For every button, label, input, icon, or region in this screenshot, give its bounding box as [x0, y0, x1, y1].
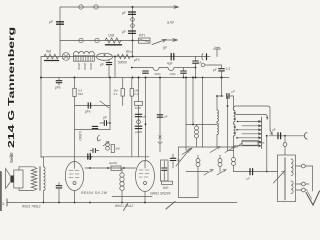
switch M2	[217, 170, 226, 176]
variable tap arrow	[176, 150, 190, 167]
wire V11	[178, 147, 180, 198]
junction dot	[132, 56, 134, 58]
resistor DrE box	[162, 181, 173, 184]
moving contact	[270, 130, 272, 135]
variable arrow	[103, 142, 109, 147]
connector ring3	[137, 120, 141, 124]
capacitor C20 cathode	[58, 183, 60, 186]
coil L6	[233, 96, 235, 110]
speaker driver	[14, 170, 23, 188]
capacitor C2	[129, 31, 136, 33]
wire V4	[74, 97, 76, 162]
switch K3	[225, 147, 235, 153]
capacitor C15	[157, 115, 163, 117]
resistor RTr box	[139, 38, 151, 43]
connector ring2	[131, 24, 135, 28]
underline bar	[45, 60, 59, 62]
resistor R1	[44, 54, 58, 59]
coil L3	[195, 126, 199, 130]
svg-text:µF3: µF3	[134, 58, 140, 62]
winding W1	[291, 159, 293, 176]
connector P1	[79, 5, 83, 9]
coil L8	[232, 158, 236, 162]
svg-text:µF: µF	[247, 177, 251, 181]
svg-text:DrE: DrE	[163, 186, 169, 190]
output transformer secondary	[43, 167, 45, 191]
svg-text:RFe: RFe	[126, 50, 132, 54]
contact w7	[234, 145, 262, 147]
wire H1 top bus	[60, 6, 178, 8]
contact w6	[242, 141, 261, 143]
contact w5	[237, 137, 261, 139]
capacitor C16	[162, 168, 167, 170]
wire H12	[186, 171, 208, 173]
capacitor C6	[195, 57, 197, 61]
svg-text:µF: µF	[164, 115, 168, 119]
edge artifact	[0, 172, 2, 211]
svg-text:2020: 2020	[77, 63, 81, 70]
capacitor C11	[88, 154, 91, 159]
choke L11	[120, 173, 124, 177]
svg-text:DrW: DrW	[135, 106, 141, 110]
contact w1	[238, 121, 262, 123]
speaker cone	[6, 169, 11, 189]
resistor R5 box	[131, 78, 133, 89]
wire drop 221.5	[221, 78, 223, 97]
svg-text:0,5MΩ: 0,5MΩ	[78, 131, 82, 141]
wire H11	[179, 197, 199, 199]
wire H5	[75, 105, 111, 107]
voltage selector arrow	[274, 171, 285, 183]
svg-text:RE604 SN 2W: RE604 SN 2W	[81, 191, 108, 195]
svg-text:µF: µF	[232, 90, 236, 94]
resistor R7 DrW box	[135, 102, 143, 106]
junction dot	[40, 77, 42, 79]
svg-text:2M: 2M	[116, 147, 121, 151]
wire V10	[202, 78, 204, 148]
capacitor C18	[278, 133, 281, 139]
wire V3 left drop	[40, 57, 42, 158]
resistor R9 box	[242, 141, 258, 146]
svg-text:µF: µF	[100, 63, 104, 67]
label L1 taps	[77, 63, 93, 70]
coil L4	[216, 96, 218, 110]
junction dot	[114, 56, 116, 58]
wire H2 second bus	[60, 40, 150, 42]
wire antenna output	[269, 135, 304, 137]
svg-text:WH21 7A•12: WH21 7A•12	[115, 204, 134, 208]
wire spk top	[19, 167, 34, 170]
terminal 3	[6, 199, 8, 206]
capacitor C5 stub	[58, 78, 60, 80]
ground G1	[88, 153, 93, 160]
svg-text:2020: 2020	[89, 63, 93, 70]
svg-text:Wd: Wd	[46, 50, 51, 54]
mains plug V	[306, 191, 320, 205]
wire H4 main bus	[41, 77, 229, 79]
wire hop line	[132, 68, 196, 71]
mains terminal T1	[296, 165, 302, 167]
wire filament line	[112, 196, 152, 198]
svg-text:50000: 50000	[118, 61, 127, 65]
capacitor C9	[107, 122, 110, 124]
capacitor C3	[108, 60, 110, 62]
capacitor C-ant	[57, 22, 64, 24]
junction dot	[132, 40, 134, 42]
loop wire A	[234, 106, 271, 130]
resistor R6 box	[111, 145, 114, 153]
wire H9 switch rail	[179, 143, 243, 147]
wire spk bottom	[19, 188, 34, 190]
capacitor C6b	[183, 68, 185, 71]
mains terminal T3	[296, 189, 302, 191]
wire H7	[41, 156, 149, 158]
core lines	[284, 158, 285, 201]
switch K2	[210, 147, 220, 153]
resistor R2	[117, 54, 130, 58]
capacitor C-h6	[92, 126, 98, 128]
arrow end a.W	[174, 6, 179, 9]
svg-text:2020: 2020	[83, 63, 87, 70]
coil L10	[218, 159, 222, 163]
wire H6 heater line	[75, 129, 111, 131]
wire H3 tuner bus	[41, 56, 210, 58]
wire shield vertical	[228, 96, 234, 150]
wire H8	[186, 124, 217, 126]
output tube V1	[65, 162, 83, 191]
resistor R-heat	[105, 38, 122, 43]
svg-text:µFe: µFe	[85, 110, 91, 114]
svg-text:MΩ: MΩ	[78, 92, 83, 96]
terminal ring	[284, 136, 286, 143]
wire trans top	[41, 157, 43, 167]
switch arc	[158, 142, 162, 143]
capacitor C4	[171, 54, 174, 60]
rectifier tube V2	[136, 161, 155, 192]
IF can box	[161, 160, 169, 181]
svg-text:RTr: RTr	[139, 34, 146, 38]
wire V1 left vertical	[59, 7, 61, 57]
underline bar	[106, 44, 122, 46]
svg-text:µF: µF	[143, 114, 147, 118]
coil L5	[217, 123, 218, 135]
grid wire	[85, 167, 136, 169]
svg-text:10Ω: 10Ω	[108, 34, 115, 38]
title text Seibt 214 G Tannenberg	[7, 27, 16, 163]
wire V-osc drop	[114, 57, 116, 78]
connector P2	[94, 5, 98, 9]
coil L2	[106, 143, 110, 147]
contact w4	[242, 133, 261, 135]
svg-text:µF: µF	[49, 20, 53, 24]
junction dots bus	[43, 202, 45, 204]
svg-text:Seibt: Seibt	[9, 152, 14, 163]
winding W2	[291, 181, 293, 194]
svg-text:Wň21 7A612: Wň21 7A612	[22, 205, 41, 209]
power transformer NTr	[278, 155, 296, 202]
svg-text:a.W: a.W	[167, 21, 174, 25]
dial cord	[100, 101, 109, 108]
wire V9	[192, 78, 194, 125]
wire drop to mains	[266, 136, 268, 172]
trimmer CT1	[202, 54, 203, 60]
svg-text:gn: gn	[163, 46, 167, 50]
coil L9	[196, 159, 200, 163]
wire V7	[159, 78, 161, 153]
svg-text:214 G Tannenberg: 214 G Tannenberg	[7, 27, 16, 148]
wire V6	[145, 78, 147, 162]
capacitor C6a	[143, 71, 149, 73]
svg-text:NA61 SN2W: NA61 SN2W	[150, 192, 171, 196]
coil L1 with core	[74, 51, 95, 61]
tube V-det oval	[97, 53, 113, 60]
pencil tick	[124, 203, 129, 211]
resistor R3 box	[74, 78, 76, 89]
wire plug drop	[312, 166, 314, 191]
svg-text:µF: µF	[103, 116, 107, 120]
mains terminal T2	[296, 183, 302, 185]
svg-text:4µF: 4µF	[167, 62, 173, 66]
bottom bus	[7, 202, 237, 204]
resistor R8 box	[111, 166, 121, 170]
junction dot	[132, 77, 134, 79]
junction dot	[220, 76, 222, 78]
terminal jack	[304, 133, 307, 140]
junction dot	[109, 77, 111, 79]
connector ring1	[131, 18, 135, 22]
grid leak arrow	[98, 135, 100, 141]
capacitor C19	[250, 169, 253, 175]
pickup terminal	[201, 63, 205, 67]
junction dot	[109, 122, 111, 124]
svg-text:3: 3	[2, 202, 4, 206]
switch K1	[182, 148, 192, 154]
wire H10	[234, 171, 278, 173]
svg-text:µF25: µF25	[135, 130, 142, 134]
wire V2 capacitor chain	[132, 7, 134, 57]
capacitor C14	[135, 126, 142, 128]
capacitor C8	[88, 103, 90, 108]
switch bar	[261, 117, 263, 149]
switch S-mains	[152, 40, 166, 45]
capacitor C7	[221, 65, 223, 69]
junction dot	[74, 77, 76, 79]
resistor R4 box	[122, 78, 124, 89]
connector P4	[95, 38, 99, 42]
switch M1	[204, 170, 213, 176]
svg-text:µFe: µFe	[55, 86, 61, 90]
component column X	[138, 78, 140, 102]
capacitor C12	[135, 114, 142, 116]
svg-text:140v: 140v	[170, 72, 177, 76]
capacitor C10	[93, 149, 95, 153]
loop wire B	[236, 115, 267, 120]
svg-text:0µ2W: 0µ2W	[109, 161, 117, 165]
svg-text:µF: µF	[122, 30, 126, 34]
coil L7	[234, 124, 236, 136]
svg-text:µF: µF	[213, 68, 217, 72]
svg-text:2.2: 2.2	[226, 67, 231, 71]
break mark	[159, 136, 162, 139]
svg-text:µF: µF	[122, 11, 126, 15]
svg-text:0,1: 0,1	[134, 92, 138, 96]
capacitor C17	[217, 95, 223, 97]
lamp X1	[62, 53, 70, 61]
svg-text:0,1: 0,1	[114, 92, 119, 96]
capacitor C21	[172, 154, 174, 158]
output transformer primary	[31, 167, 37, 190]
wire V5	[109, 78, 111, 130]
svg-text:220v: 220v	[155, 72, 162, 76]
capacitor C1	[129, 12, 136, 14]
contact w2	[242, 125, 261, 127]
pencil slash	[166, 202, 175, 210]
wire trans bottom	[42, 191, 44, 203]
connector P3	[79, 38, 83, 42]
contact w3	[237, 129, 261, 131]
antenna A1	[216, 49, 218, 57]
core lines	[39, 167, 40, 191]
wire V8	[185, 78, 187, 151]
voice coil	[11, 176, 14, 183]
svg-text:µF: µF	[272, 128, 276, 132]
